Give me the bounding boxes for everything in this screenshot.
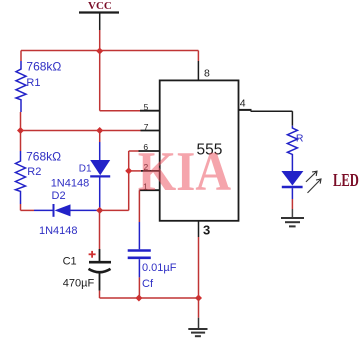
svg-text:0.01µF: 0.01µF	[142, 262, 177, 274]
node junction D1/D2/C1	[96, 207, 103, 214]
wire top rail y=50.5	[21, 50, 198, 52]
ground bottom	[188, 329, 207, 336]
pin 7 stub	[141, 130, 160, 132]
wire LED to ground	[291, 199, 293, 209]
wire junction down to R2	[20, 131, 22, 152]
power port VCC	[79, 0, 119, 30]
svg-text:D2: D2	[52, 190, 66, 202]
svg-text:7: 7	[144, 122, 149, 132]
wire pin5 from VCC node	[99, 51, 101, 111]
wire pin6 horizontal	[129, 150, 139, 152]
ground under LED	[281, 218, 304, 226]
svg-text:768kΩ: 768kΩ	[26, 59, 61, 73]
node junction Cf/rail	[135, 295, 142, 302]
resistor R	[287, 126, 304, 157]
svg-text:R1: R1	[26, 77, 40, 89]
svg-text:470µF: 470µF	[63, 278, 95, 290]
wire R2 bottom corner	[20, 204, 22, 210]
pin 6 stub	[139, 150, 160, 152]
svg-text:Cf: Cf	[142, 278, 154, 290]
pin 1 stub	[139, 189, 159, 191]
svg-text:VCC: VCC	[88, 0, 112, 12]
wire R1 bottom to junction	[20, 112, 22, 131]
wire rail corner down to R1	[20, 51, 22, 62]
svg-text:1N4148: 1N4148	[51, 178, 90, 190]
svg-text:8: 8	[204, 68, 210, 80]
LED arrows	[306, 171, 321, 193]
svg-text:C1: C1	[63, 255, 77, 267]
node junction at VCC rail	[96, 48, 103, 55]
node junction R1/R2	[17, 127, 24, 134]
svg-text:R: R	[296, 132, 304, 144]
wire VCC down to junction	[99, 30, 101, 51]
pin 3 wire down	[198, 221, 200, 237]
wire ground lead	[198, 298, 200, 318]
resistor R1	[16, 59, 61, 112]
resistor R2	[16, 149, 62, 204]
wire bottom rail	[100, 297, 199, 299]
node junction pin2 riser	[125, 167, 132, 174]
diode D2	[34, 190, 100, 237]
wire y=130 horizontal to pin 7	[21, 130, 141, 132]
capacitor C1	[63, 210, 111, 298]
svg-text:3: 3	[203, 223, 210, 238]
svg-text:5: 5	[144, 102, 149, 112]
node junction D1 anode	[96, 127, 103, 134]
svg-text:LED: LED	[333, 171, 359, 191]
wire riser x=128.7	[128, 151, 130, 210]
svg-text:4: 4	[240, 97, 246, 109]
svg-text:D1: D1	[79, 163, 92, 174]
wire junction right to pins 6/2 riser	[100, 209, 129, 211]
wire pin8 drop	[197, 51, 199, 62]
svg-text:1N4148: 1N4148	[39, 225, 78, 237]
diode D1	[51, 131, 110, 211]
wire pin2 horizontal	[129, 170, 141, 172]
svg-text:R2: R2	[27, 166, 41, 178]
timer IC U1 555	[160, 80, 239, 220]
LED	[281, 157, 303, 200]
capacitor Cf	[128, 190, 177, 298]
pin 2 stub	[141, 170, 160, 172]
pin 5 stub	[140, 110, 160, 112]
svg-text:768kΩ: 768kΩ	[26, 149, 61, 163]
pin 4 stub and wire	[239, 109, 252, 111]
svg-text:KIA: KIA	[138, 141, 231, 203]
node junction rail/pin3	[195, 295, 202, 302]
